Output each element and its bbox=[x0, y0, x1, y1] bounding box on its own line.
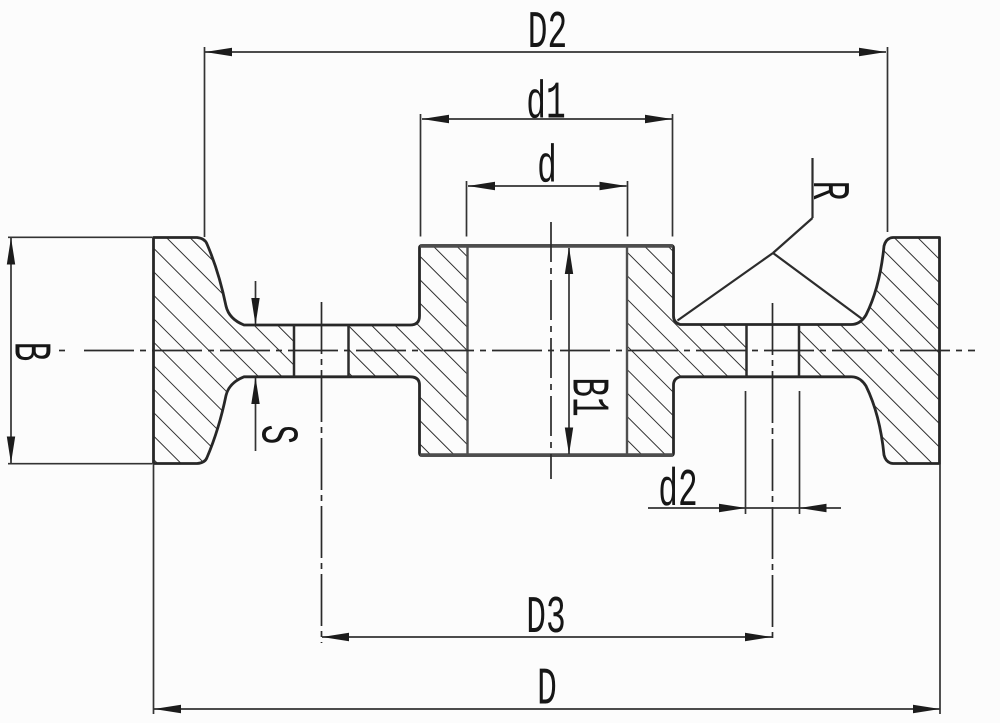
R leader diagonal bbox=[773, 218, 813, 253]
right web hole right wall bbox=[798, 325, 801, 377]
D2 dimension line bbox=[205, 51, 886, 53]
D3 dimension line bbox=[322, 636, 772, 638]
bore vertical centerline bbox=[550, 222, 552, 479]
D2 extension lines bbox=[204, 47, 206, 237]
B1 dimension line bbox=[568, 248, 570, 454]
svg-text:B: B bbox=[0, 342, 60, 362]
main cross-section outline bbox=[154, 238, 940, 464]
d2 dimension line bbox=[648, 507, 841, 509]
svg-text:D2: D2 bbox=[528, 3, 567, 63]
horizontal centerline lead dot bbox=[59, 350, 65, 352]
bore right wall bbox=[626, 246, 628, 455]
d1 extension lines bbox=[420, 114, 422, 237]
R leader vertical bbox=[811, 158, 813, 218]
left web hole left wall bbox=[293, 325, 296, 377]
bore left wall bbox=[466, 246, 468, 455]
svg-text:d: d bbox=[537, 138, 557, 198]
B dimension line bbox=[10, 238, 12, 464]
D extension lines bbox=[153, 464, 155, 715]
right hole centerline / D3 extension bbox=[772, 303, 774, 643]
hub bore top edge bbox=[420, 244, 673, 248]
svg-text:D: D bbox=[537, 660, 557, 720]
d1 dimension line bbox=[422, 118, 672, 120]
left hole centerline / D3 extension bbox=[321, 302, 323, 643]
left web hole right wall bbox=[347, 325, 350, 377]
svg-text:D3: D3 bbox=[526, 588, 565, 648]
svg-text:B1: B1 bbox=[558, 377, 618, 416]
B extension lines bbox=[8, 236, 152, 238]
S dimension lower line bbox=[255, 378, 257, 451]
hub bore bottom edge bbox=[420, 453, 673, 457]
svg-text:R: R bbox=[798, 181, 858, 201]
groove V line left bbox=[678, 253, 774, 321]
svg-text:d1: d1 bbox=[526, 74, 565, 134]
section hatching bbox=[140, 225, 955, 475]
S dimension upper line bbox=[255, 281, 257, 324]
svg-text:S: S bbox=[247, 425, 307, 445]
d dimension line bbox=[468, 185, 627, 187]
groove V line right bbox=[773, 253, 862, 319]
horizontal centerline bbox=[84, 350, 975, 352]
d2 extension lines bbox=[745, 391, 747, 514]
d extension lines bbox=[466, 181, 468, 237]
right web hole left wall bbox=[745, 325, 748, 377]
D dimension line bbox=[154, 708, 940, 710]
svg-text:d2: d2 bbox=[658, 461, 697, 521]
